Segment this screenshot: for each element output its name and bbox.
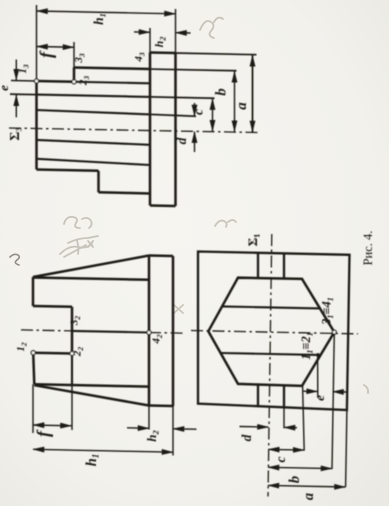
svg-text:Рис. 4.: Рис. 4. — [361, 231, 375, 266]
svg-text:c: c — [273, 457, 288, 463]
svg-text:d: d — [174, 137, 189, 144]
svg-text:a: a — [234, 102, 250, 110]
svg-text:e: e — [312, 395, 327, 401]
svg-text:c: c — [191, 109, 206, 115]
svg-text:e: e — [0, 85, 11, 91]
svg-text:31≡41: 31≡41 — [320, 297, 336, 326]
svg-text:b: b — [287, 476, 303, 483]
svg-text:a: a — [301, 493, 317, 500]
svg-text:11≡21: 11≡21 — [299, 332, 315, 360]
svg-text:d: d — [239, 434, 254, 441]
svg-text:b: b — [214, 88, 230, 96]
